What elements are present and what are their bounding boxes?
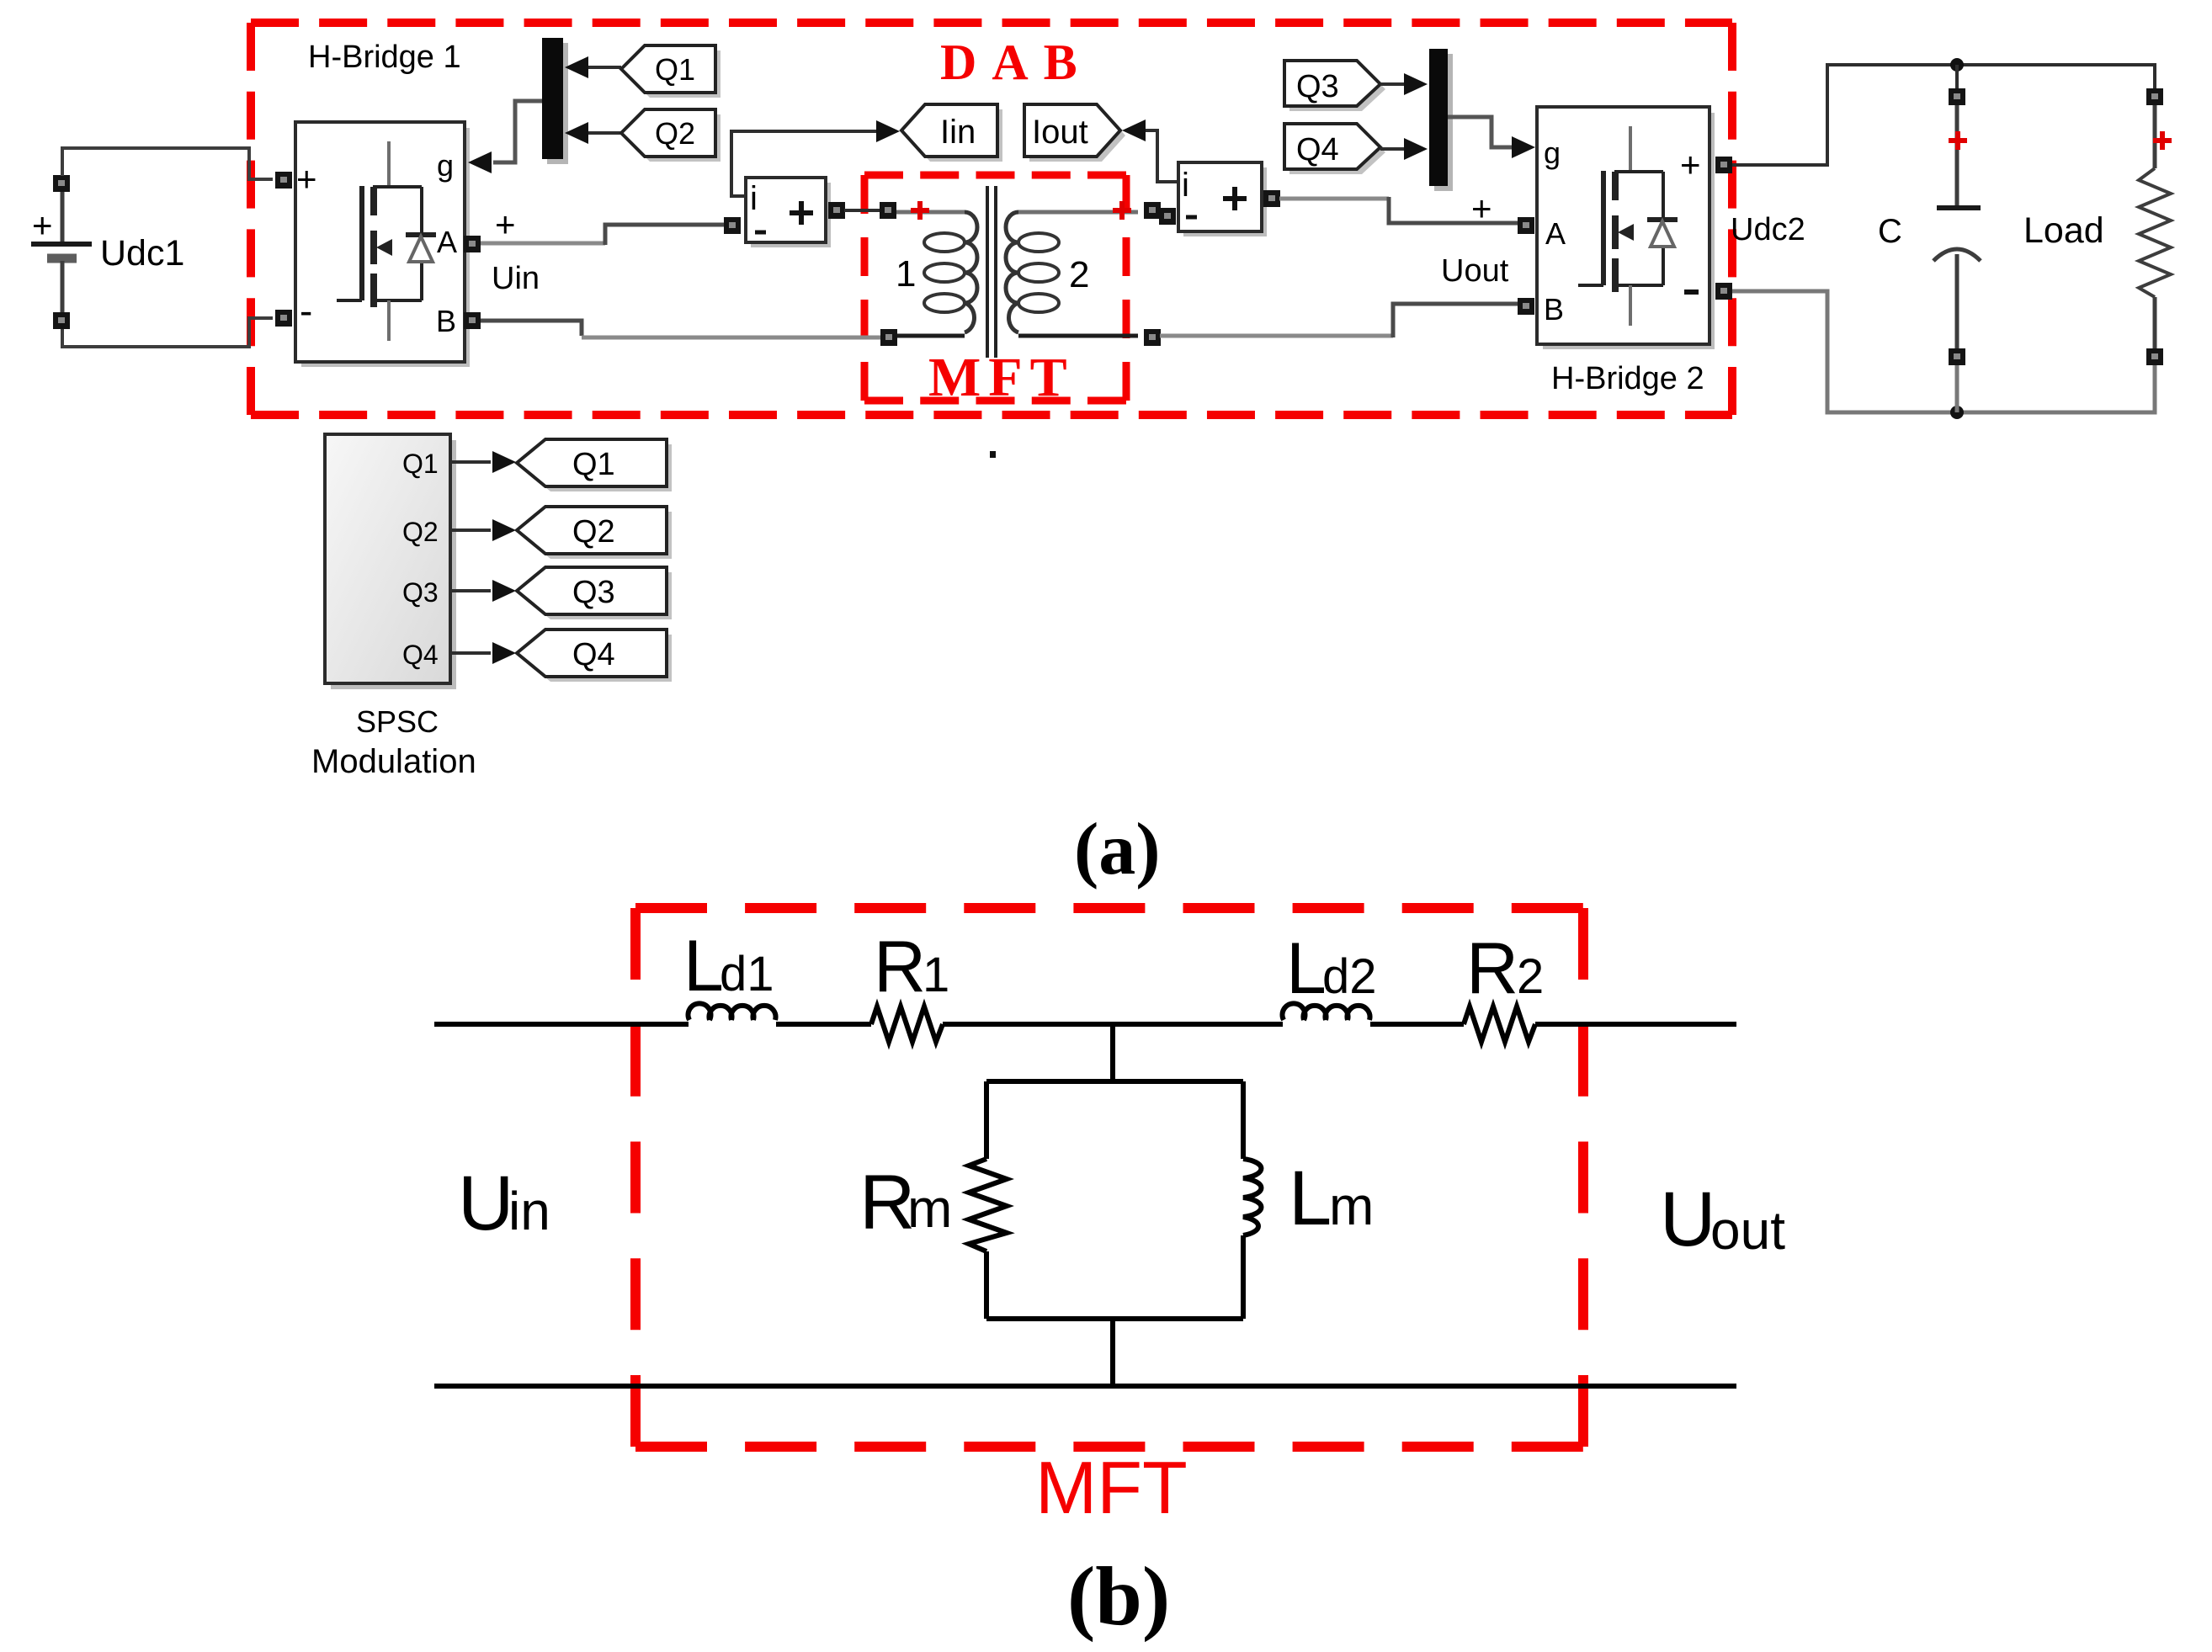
SPSC Modulation subsystem block <box>311 434 476 780</box>
svg-text:d1: d1 <box>720 947 774 1001</box>
svg-text:+: + <box>1680 145 1701 184</box>
port C bottom <box>1949 348 1965 365</box>
port HB1 + <box>275 172 292 189</box>
Goto tag Q3 (lower) <box>517 567 672 619</box>
svg-text:1: 1 <box>896 253 916 295</box>
svg-text:-: - <box>300 289 312 332</box>
wire top rail left <box>434 1022 689 1027</box>
label + <box>790 210 813 215</box>
polarity + primary (red) <box>911 201 929 220</box>
svg-text:Iin: Iin <box>940 114 976 151</box>
svg-text:Uin: Uin <box>492 261 540 296</box>
port transformer 1- <box>880 329 897 346</box>
svg-text:L: L <box>1286 928 1327 1009</box>
port HB1 - <box>275 310 292 327</box>
svg-text:+: + <box>296 159 317 199</box>
svg-text:DAB: DAB <box>940 35 1093 90</box>
svg-text:2: 2 <box>1517 949 1544 1004</box>
svg-text:+: + <box>1471 189 1492 228</box>
junction bottom node <box>1950 406 1964 419</box>
secondary winding <box>1018 210 1138 215</box>
wire Q2 tag to mux <box>587 131 621 135</box>
mux block right <box>1429 49 1453 191</box>
battery plate short <box>47 254 77 263</box>
port i2 + out <box>1263 190 1280 207</box>
port i1 + out <box>828 202 845 219</box>
From tag Q2 <box>621 109 720 162</box>
svg-text:(a): (a) <box>1074 809 1161 890</box>
svg-text:C: C <box>1878 213 1902 250</box>
svg-text:+: + <box>495 205 516 244</box>
wire i1 + to transformer port <box>844 209 880 212</box>
port transformer 2- <box>1144 329 1161 346</box>
From tag Q4 <box>1284 124 1385 174</box>
label + <box>1223 196 1247 201</box>
wire transformer 2- to HB2 B <box>1160 334 1393 338</box>
svg-text:Q2: Q2 <box>572 514 615 550</box>
resistor Rm <box>969 1159 1007 1251</box>
svg-text:i: i <box>1182 167 1189 204</box>
battery plate long <box>31 242 92 247</box>
port i2 - <box>1159 208 1176 225</box>
svg-text:Q1: Q1 <box>655 52 695 87</box>
body arrow <box>1618 224 1634 241</box>
svg-text:d2: d2 <box>1322 949 1377 1004</box>
svg-text:A: A <box>437 225 457 259</box>
wire i1 i-output to Iin tag <box>731 131 876 196</box>
label - <box>755 231 766 235</box>
svg-text:MFT: MFT <box>928 347 1075 408</box>
core <box>986 186 989 358</box>
wire i2 + to HB2 A <box>1279 197 1389 201</box>
wire top rail right <box>1535 1022 1736 1027</box>
svg-text:Q1: Q1 <box>572 447 615 482</box>
svg-text:U: U <box>458 1161 513 1246</box>
svg-text:g: g <box>437 148 454 183</box>
port C top <box>1949 88 1965 105</box>
wire mux right to HB2 g <box>1448 117 1512 147</box>
svg-text:B: B <box>436 304 456 338</box>
svg-text:2: 2 <box>1069 254 1089 295</box>
port transformer 1+ <box>880 202 896 219</box>
polarity + Load (red) <box>2153 131 2172 150</box>
Goto tag Q4 (lower) <box>517 629 672 682</box>
port HB1 B <box>464 312 481 329</box>
svg-text:Q2: Q2 <box>655 116 695 151</box>
svg-text:Q1: Q1 <box>402 449 439 479</box>
Goto tag Q2 (lower) <box>517 507 672 559</box>
current measurement block 2 <box>1159 162 1280 236</box>
mux block left (gate signals) <box>542 38 568 164</box>
source lead <box>1629 285 1632 326</box>
wire capacitor to junction bottom <box>1955 365 1959 412</box>
svg-text:Q3: Q3 <box>1296 69 1339 104</box>
wire SPSC Q3 to goto <box>450 589 491 592</box>
wire HB1 B to MFT 1- <box>481 321 582 336</box>
From tag Q3 <box>1284 61 1385 111</box>
wire SPSC Q2 to goto <box>450 529 491 532</box>
svg-text:Load: Load <box>2023 210 2104 251</box>
channel bars <box>370 187 377 215</box>
transistor Q (MOSFET) icon inside H-Bridge 2 <box>1578 126 1678 326</box>
polarity + C (red) <box>1949 131 1967 150</box>
wire Q3 to mux right <box>1380 82 1404 86</box>
DC source Udc1 <box>31 175 184 329</box>
port HB2 + <box>1715 157 1732 173</box>
svg-text:A: A <box>1545 216 1566 251</box>
svg-text:Q3: Q3 <box>572 575 615 610</box>
port Load bottom <box>2146 348 2163 365</box>
wire Ld1 to R1 <box>776 1022 871 1027</box>
port HB1 A <box>464 236 481 252</box>
svg-text:Modulation: Modulation <box>311 743 476 780</box>
source lead <box>387 300 391 341</box>
gate bar and lead <box>359 186 364 300</box>
svg-text:(b): (b) <box>1067 1549 1170 1643</box>
junction top node <box>1950 58 1964 72</box>
port HB2 - <box>1715 283 1732 300</box>
Goto tag Iout <box>1024 104 1125 162</box>
wire bottom rail <box>434 1384 1736 1389</box>
port Load top <box>2146 88 2163 105</box>
gate bar and lead <box>1601 171 1606 285</box>
MFT dashed boundary box (b) <box>635 908 1583 1447</box>
svg-text:Q4: Q4 <box>1296 132 1339 167</box>
body diode <box>1647 217 1678 222</box>
wire junction to capacitor <box>1955 65 1959 88</box>
svg-text:i: i <box>750 180 758 217</box>
svg-text:B: B <box>1544 292 1564 327</box>
svg-text:Udc1: Udc1 <box>100 233 184 274</box>
polarity + secondary (red) <box>1113 201 1131 220</box>
H-Bridge 1 subsystem block <box>275 40 481 367</box>
node stem bottom <box>1110 1319 1115 1386</box>
svg-text:Iout: Iout <box>1032 114 1088 151</box>
port i1 - <box>724 217 741 234</box>
wire SPSC Q1 to goto <box>450 460 491 464</box>
wire R1 to node <box>943 1022 1283 1027</box>
svg-text:Uout: Uout <box>1441 253 1509 289</box>
svg-text:in: in <box>508 1181 550 1241</box>
wire Udc1- to H-Bridge1 - <box>62 318 273 347</box>
svg-text:Q3: Q3 <box>402 577 439 608</box>
label - <box>1186 215 1197 220</box>
From tag Q1 <box>621 45 720 98</box>
svg-text:Q2: Q2 <box>402 517 439 547</box>
inductor Lm <box>1243 1159 1261 1235</box>
resistor Load <box>2023 88 2172 365</box>
svg-text:SPSC: SPSC <box>356 704 439 739</box>
wire Q4 to mux right <box>1380 147 1404 151</box>
wire HB1 A to i1 - <box>481 242 605 246</box>
svg-text:Q4: Q4 <box>402 640 439 670</box>
svg-text:R: R <box>874 927 926 1007</box>
svg-text:out: out <box>1710 1200 1785 1261</box>
svg-text:U: U <box>1660 1177 1715 1262</box>
drain lead <box>1629 126 1632 172</box>
svg-text:g: g <box>1544 135 1561 170</box>
wire SPSC Q4 to goto <box>450 651 491 655</box>
svg-text:Udc2: Udc2 <box>1731 212 1805 247</box>
port transformer 2+ <box>1144 202 1161 219</box>
svg-text:1: 1 <box>923 948 949 1002</box>
svg-text:H-Bridge 2: H-Bridge 2 <box>1551 361 1704 396</box>
svg-text:m: m <box>907 1178 952 1239</box>
resistor R2 <box>1464 1007 1535 1042</box>
primary winding <box>896 210 965 215</box>
inductor Ld1 <box>688 1003 775 1020</box>
wire HB2 - to DC bus bottom <box>1732 291 2155 412</box>
DAB dashed boundary box <box>251 23 1732 415</box>
Goto tag Iin <box>901 104 1002 162</box>
transformer MFT (linear transformer block) <box>844 186 1161 358</box>
wire mux to HB1 g <box>493 101 542 162</box>
pin - <box>1684 289 1699 295</box>
wire Udc1+ to H-Bridge1 + <box>62 148 273 179</box>
stray dot annotation <box>990 451 996 458</box>
channel bars <box>1612 172 1619 200</box>
capacitor C <box>1878 88 1981 365</box>
current measurement block 1 <box>724 178 845 247</box>
inductor Ld2 <box>1282 1003 1369 1020</box>
port HB2 A <box>1518 217 1534 234</box>
MFT dashed boundary box (model) <box>864 175 1126 401</box>
wire Q1 tag to mux <box>587 66 621 69</box>
Goto tag Q1 (lower) <box>517 439 672 491</box>
port Udc1 top <box>53 175 70 192</box>
H-Bridge 2 subsystem block <box>1518 107 1732 396</box>
wire i2 i-output to Iout tag <box>1146 130 1178 182</box>
battery lead top <box>61 191 65 243</box>
resistor R1 <box>871 1007 943 1042</box>
node stem top <box>1110 1024 1115 1084</box>
svg-text:Q4: Q4 <box>572 637 615 672</box>
wire Ld2 to R2 <box>1370 1022 1464 1027</box>
svg-text:L: L <box>1289 1155 1332 1241</box>
svg-text:H-Bridge 1: H-Bridge 1 <box>308 40 461 75</box>
port Udc1 bottom <box>53 312 70 329</box>
battery lead bottom <box>61 261 65 313</box>
port HB2 B <box>1518 298 1534 315</box>
body arrow <box>376 239 392 256</box>
svg-text:R: R <box>1466 928 1518 1009</box>
svg-text:L: L <box>683 926 724 1007</box>
svg-text:+: + <box>32 205 53 245</box>
svg-text:MFT: MFT <box>1035 1446 1188 1529</box>
drain lead <box>387 141 391 187</box>
body diode <box>406 232 436 237</box>
magnetizing branch box <box>986 1081 1243 1319</box>
transistor Q (MOSFET) icon inside H-Bridge 1 <box>337 141 436 341</box>
wire HB2 + to DC bus top <box>1732 65 2155 165</box>
svg-text:m: m <box>1329 1176 1374 1236</box>
